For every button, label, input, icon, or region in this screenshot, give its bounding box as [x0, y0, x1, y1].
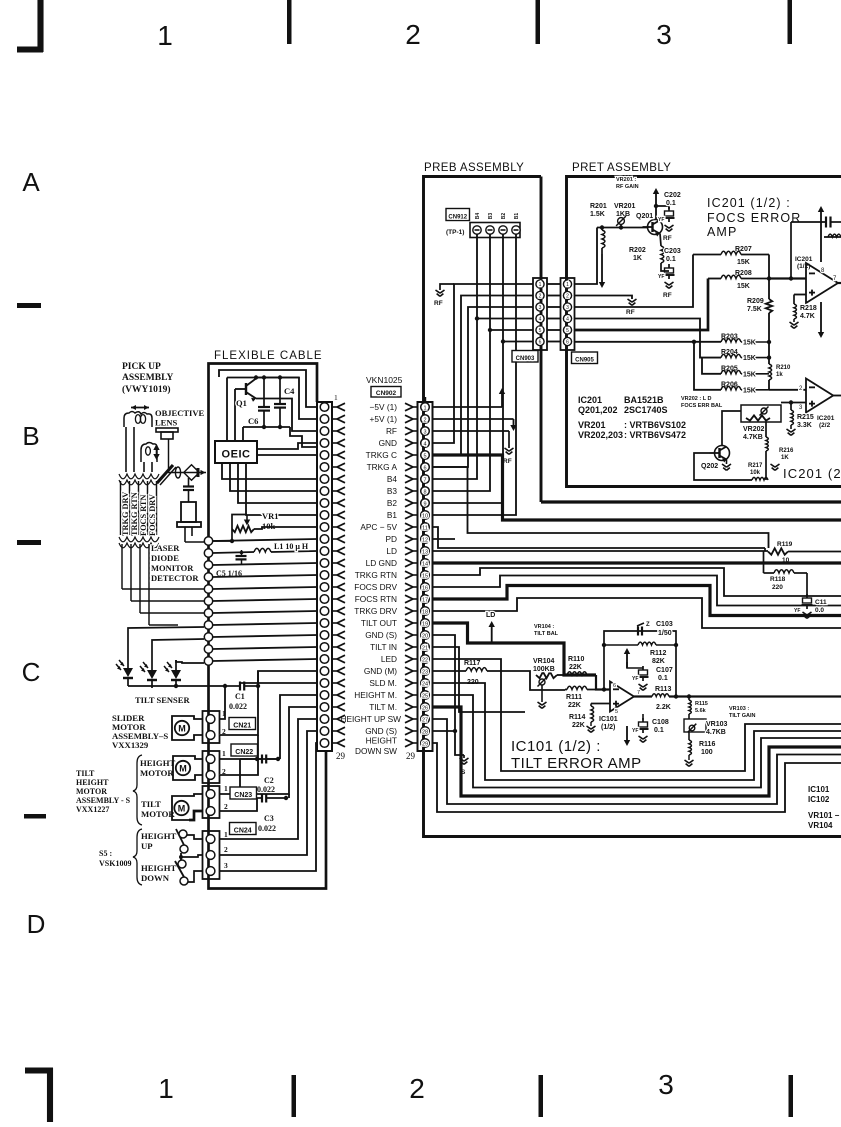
wire cap bottom row	[243, 426, 290, 428]
svg-text:RF: RF	[663, 292, 672, 299]
svg-text:: VRTB6VS472: : VRTB6VS472	[624, 430, 686, 440]
cable joint node 10	[204, 645, 212, 653]
svg-text:C108: C108	[652, 719, 669, 726]
wire +5V supply arrow	[433, 418, 514, 420]
svg-text:C203: C203	[664, 248, 681, 255]
cable arrow 2	[332, 418, 337, 420]
svg-text:MOTOR: MOTOR	[76, 787, 107, 796]
cable contact 21	[320, 643, 329, 652]
wire cable pin1 net	[219, 370, 317, 407]
board arrow 26	[413, 706, 418, 708]
svg-text:2: 2	[539, 294, 542, 300]
cable arrow 22	[332, 658, 337, 660]
svg-text:DIODE: DIODE	[151, 553, 179, 563]
board arrow 27	[413, 718, 418, 720]
svg-text:B4: B4	[387, 474, 398, 484]
svg-text:22: 22	[422, 658, 428, 664]
wire chain row 21	[213, 647, 318, 649]
svg-text:10k: 10k	[262, 521, 276, 531]
wire pin24 SLD M	[433, 683, 841, 780]
cable contact 12	[320, 535, 329, 544]
brace tilt assembly	[133, 755, 142, 825]
svg-text:(TP-1): (TP-1)	[446, 229, 464, 236]
svg-text:B1: B1	[514, 213, 520, 220]
cable contact 13	[320, 547, 329, 556]
flex wires from coils	[125, 427, 127, 472]
wire gnd bus to CN22-2	[220, 735, 258, 775]
svg-text:B: B	[22, 421, 39, 451]
svg-text:R202: R202	[629, 247, 646, 254]
svg-text:LENS: LENS	[155, 418, 177, 428]
svg-text:DETECTOR: DETECTOR	[151, 573, 199, 583]
svg-text:Q202: Q202	[701, 463, 718, 470]
svg-text:Q201: Q201	[636, 213, 653, 220]
resistor R210	[769, 364, 772, 380]
wire pin21 TILT IN	[433, 647, 525, 712]
svg-text:R114: R114	[569, 714, 585, 721]
CN902 contact 8	[421, 487, 430, 496]
svg-text:FOCS DRV: FOCS DRV	[354, 582, 397, 592]
wire monitor 3	[140, 612, 204, 614]
svg-text:L1 10 μ H: L1 10 μ H	[274, 542, 309, 551]
svg-text:29: 29	[406, 751, 416, 761]
svg-text:R201: R201	[590, 203, 607, 210]
CN902 contact 29	[421, 739, 430, 748]
svg-text:GND (M): GND (M)	[364, 666, 397, 676]
svg-text:CN905: CN905	[575, 357, 594, 363]
resistor R215	[790, 403, 792, 411]
svg-text:VR202: VR202	[743, 426, 765, 433]
tracking actuator arrow	[131, 407, 149, 409]
CN903 contact 2	[536, 291, 544, 299]
resistor R118	[763, 552, 765, 574]
svg-text:3: 3	[656, 19, 672, 50]
svg-text:R115: R115	[695, 701, 708, 707]
wire RF pin3	[433, 430, 509, 432]
cable joint node 3	[204, 561, 212, 569]
wire R205 feed	[700, 357, 702, 359]
CN905 contact 3	[563, 303, 571, 311]
svg-text:28: 28	[422, 730, 428, 736]
cable contact 9	[320, 499, 329, 508]
wire opamp1 plus	[794, 294, 806, 296]
variable resistor VR202	[741, 405, 781, 422]
motor M3 frame	[172, 796, 189, 820]
wire R202 emitter	[660, 234, 661, 247]
svg-text:5.6k: 5.6k	[695, 708, 707, 714]
svg-text:100: 100	[701, 749, 713, 756]
focus actuator arrow	[156, 449, 158, 452]
svg-text:5: 5	[566, 328, 569, 334]
board arrow 19	[413, 622, 418, 624]
cable arrow 21	[332, 646, 337, 648]
supply arrow down IC101	[626, 726, 628, 741]
svg-text:C1: C1	[235, 692, 245, 701]
wire pin17 TRKG DRV	[433, 586, 841, 616]
cable joint node 7	[204, 609, 212, 617]
svg-text:YF: YF	[658, 274, 664, 280]
svg-text:CN24: CN24	[234, 827, 252, 834]
wire M2 to CN22	[190, 756, 202, 759]
svg-text:TRKG DRV: TRKG DRV	[121, 492, 130, 536]
Q202 emitter ground	[726, 460, 728, 465]
connector CN22	[203, 751, 220, 783]
svg-text:VR201: VR201	[614, 203, 636, 210]
svg-text:ASSEMBLY: ASSEMBLY	[122, 373, 174, 383]
cable contact 15	[320, 571, 329, 580]
svg-text:7.5K: 7.5K	[747, 306, 762, 313]
svg-text:0.022: 0.022	[257, 785, 275, 794]
wire laser to pin10	[246, 463, 317, 515]
svg-text:(1/2): (1/2)	[601, 724, 615, 731]
svg-text:AMP: AMP	[707, 225, 737, 239]
connector CN23	[203, 786, 220, 818]
svg-text:6: 6	[566, 340, 569, 346]
wire chain row 14	[213, 563, 318, 565]
svg-text:R111: R111	[566, 694, 582, 701]
wire pin25 to CN22-1	[280, 695, 317, 759]
wire CN903-2 left	[433, 296, 533, 456]
svg-text:IC201 (1/2) :: IC201 (1/2) :	[707, 196, 791, 210]
svg-text:RF: RF	[386, 426, 397, 436]
wire PREB edge out	[541, 500, 841, 503]
svg-text:VXX1329: VXX1329	[112, 740, 149, 750]
cable contact 6	[320, 463, 329, 472]
wire opamp1 minus	[769, 277, 806, 279]
supply arrow down opamp1	[820, 302, 822, 333]
beam path vertical	[168, 439, 170, 472]
frame tick left B-C	[17, 540, 41, 545]
svg-text:15K: 15K	[743, 340, 756, 347]
CN902 contact 23	[421, 667, 430, 676]
svg-text:RF GAIN: RF GAIN	[616, 184, 639, 190]
svg-text:C: C	[22, 657, 41, 687]
wire C4 to pin	[290, 427, 317, 447]
svg-text:6: 6	[613, 683, 616, 689]
svg-text:2: 2	[405, 19, 421, 50]
switch S5 contacts	[179, 830, 187, 838]
cable arrow 25	[332, 694, 337, 696]
wire M1 to CN21	[189, 716, 202, 719]
svg-text:Z: Z	[646, 622, 650, 628]
svg-text:0.022: 0.022	[229, 702, 247, 711]
svg-text:10k: 10k	[750, 470, 761, 476]
cable arrow 14	[332, 562, 337, 564]
connector CN24	[203, 831, 220, 879]
svg-text:TRKG RTN: TRKG RTN	[130, 492, 139, 536]
svg-text:1: 1	[224, 784, 228, 793]
transistor Q202	[715, 446, 730, 461]
svg-text:3: 3	[224, 861, 228, 870]
CN902 contact 17	[421, 595, 430, 604]
CN902 contact 12	[421, 535, 430, 544]
CN902 contact 5	[421, 451, 430, 460]
svg-text:20: 20	[422, 634, 428, 640]
svg-text:9: 9	[423, 502, 426, 508]
svg-text:CN902: CN902	[376, 390, 397, 397]
CN902 contact 6	[421, 463, 430, 472]
mirror	[157, 465, 173, 483]
label CN903	[512, 351, 538, 363]
svg-text:14: 14	[422, 562, 428, 568]
svg-text:HEIGHT: HEIGHT	[366, 736, 397, 746]
motor M2	[176, 761, 190, 775]
board arrow 1	[413, 406, 418, 408]
wire chain row 17	[213, 599, 318, 601]
svg-text:DOWN SW: DOWN SW	[355, 746, 397, 756]
CN902 contact 27	[421, 715, 430, 724]
wire pin26 TILT M	[433, 707, 841, 796]
focus coil	[141, 443, 157, 463]
svg-text:IC101: IC101	[599, 716, 618, 723]
cable contact 19	[320, 619, 329, 628]
inductor L1	[213, 552, 255, 553]
svg-text:3.3K: 3.3K	[797, 422, 812, 429]
svg-text:VR201: VR201	[578, 420, 606, 430]
capacitor C2	[240, 758, 262, 760]
svg-text:HEIGHT: HEIGHT	[141, 863, 176, 873]
connector CN905	[561, 278, 575, 350]
svg-text:C202: C202	[664, 192, 681, 199]
wire pin29 to CN24-3	[220, 743, 317, 871]
svg-text:YF: YF	[658, 217, 664, 223]
wire chain row1	[213, 539, 318, 541]
board arrow 18	[413, 610, 418, 612]
wire tilt D2	[152, 639, 204, 660]
svg-text:27: 27	[422, 718, 428, 724]
svg-text:220: 220	[772, 584, 783, 591]
cable arrow 5	[332, 454, 337, 456]
board arrow 5	[413, 454, 418, 456]
frame tick left C-D	[24, 814, 46, 819]
wire pin25 HEIGHT M	[433, 695, 841, 788]
tilt sensor diode D2	[147, 670, 157, 679]
svg-text:1KB: 1KB	[616, 211, 630, 218]
frame tick left A-B	[17, 303, 41, 308]
label CN23	[230, 787, 257, 799]
svg-text:R216: R216	[779, 448, 794, 454]
CN21 contacts	[206, 715, 215, 724]
svg-text:C4: C4	[284, 386, 295, 396]
svg-text:29: 29	[422, 742, 428, 748]
wire CN905-3 up	[574, 255, 693, 308]
CN902 contact 13	[421, 547, 430, 556]
svg-text:HEIGHT: HEIGHT	[140, 758, 175, 768]
wire -5V supply arrow	[433, 406, 502, 408]
laser diode package	[181, 502, 196, 522]
svg-text:ASSEMBLY - S: ASSEMBLY - S	[76, 796, 131, 805]
test point 4	[512, 226, 520, 234]
svg-text:15K: 15K	[737, 283, 750, 290]
svg-text:1: 1	[539, 282, 542, 288]
wire OEIC down3	[238, 463, 317, 503]
resistor R117	[433, 670, 466, 672]
label CN24	[230, 823, 257, 835]
CN905 contact 5	[563, 326, 571, 334]
svg-text:HEIGHT: HEIGHT	[76, 778, 109, 787]
svg-text:OBJECTIVE: OBJECTIVE	[155, 408, 204, 418]
svg-text:RF: RF	[503, 458, 512, 465]
cable contact 10	[320, 511, 329, 520]
board arrow 24	[413, 682, 418, 684]
CN902 contact 21	[421, 643, 430, 652]
wire pin28 to CN24-2	[220, 731, 317, 855]
cable arrow 7	[332, 478, 337, 480]
svg-text:LD: LD	[386, 546, 397, 556]
svg-text:18: 18	[422, 610, 428, 616]
svg-text:1k: 1k	[776, 372, 783, 378]
capacitor C4	[279, 378, 281, 405]
svg-text:R218: R218	[800, 305, 817, 312]
svg-text:0.1: 0.1	[666, 256, 676, 263]
board arrow 17	[413, 598, 418, 600]
svg-text:VR103 :: VR103 :	[729, 706, 749, 712]
svg-text:Q201,202: Q201,202	[578, 405, 618, 415]
svg-text:5: 5	[615, 709, 618, 715]
svg-text:FOCS ERROR: FOCS ERROR	[707, 211, 801, 225]
board arrow 9	[413, 502, 418, 504]
svg-text:VR202,203: VR202,203	[578, 430, 623, 440]
svg-text:RF: RF	[663, 235, 672, 242]
svg-text:TILT GAIN: TILT GAIN	[729, 713, 756, 719]
cable contact 4	[320, 439, 329, 448]
svg-text:15K: 15K	[737, 259, 750, 266]
cable contact 29	[320, 739, 329, 748]
CN902 contact 10	[421, 511, 430, 520]
op-amp U201b	[806, 379, 833, 413]
cable contact 27	[320, 715, 329, 724]
svg-text:1: 1	[158, 1073, 174, 1104]
ground S	[463, 755, 465, 758]
wire CN903-3 left	[433, 307, 533, 467]
test point strip	[470, 223, 520, 238]
svg-text:SLD M.: SLD M.	[369, 678, 397, 688]
svg-text:B3: B3	[488, 213, 494, 220]
wire VR1	[254, 527, 317, 529]
CN902 contact 16	[421, 583, 430, 592]
wire OEIC out1	[257, 443, 317, 449]
tilt sensor diode D1	[123, 668, 133, 677]
CN903 contact 6	[536, 337, 544, 345]
cable joint node 6	[204, 597, 212, 605]
CN905 contact 1	[563, 280, 571, 288]
svg-text:D: D	[27, 909, 46, 939]
svg-text:15K: 15K	[743, 355, 756, 362]
CN902 contact 9	[421, 499, 430, 508]
svg-text:MONITOR: MONITOR	[151, 563, 194, 573]
svg-text:HEIGHT: HEIGHT	[141, 831, 176, 841]
svg-text:−5V (1): −5V (1)	[370, 402, 398, 412]
svg-text:CN22: CN22	[235, 749, 253, 756]
wire monitor 2	[131, 600, 204, 602]
svg-text:0.1: 0.1	[654, 727, 664, 734]
cable arrow 16	[332, 586, 337, 588]
svg-text:24: 24	[422, 682, 428, 688]
svg-text:VR104: VR104	[533, 658, 555, 665]
cable arrow 1	[332, 406, 337, 408]
wire pin15 FOCS DRV	[433, 568, 841, 596]
wire pin28 join	[433, 730, 455, 732]
svg-text:PD: PD	[385, 534, 397, 544]
resistor R114	[591, 706, 594, 722]
wire pin12 PD stub	[433, 538, 455, 540]
cable joint node 9	[204, 633, 212, 641]
svg-text:22K: 22K	[569, 664, 582, 671]
board arrow 10	[413, 514, 418, 516]
wire Q1 emitter to pin3	[256, 399, 317, 432]
cable joint node 1	[204, 537, 212, 545]
svg-text:GND (S): GND (S)	[365, 726, 397, 736]
cable arrow 8	[332, 490, 337, 492]
motor M3	[174, 801, 188, 815]
resistor R110	[567, 672, 587, 675]
cable contact 26	[320, 703, 329, 712]
CN902 contact 26	[421, 703, 430, 712]
svg-text:LD GND: LD GND	[366, 558, 397, 568]
CN902 contact 20	[421, 631, 430, 640]
svg-text:Q1: Q1	[236, 398, 247, 408]
svg-text:4: 4	[539, 317, 542, 323]
wire chain row 20	[213, 635, 318, 637]
wire bus to minus2	[768, 380, 770, 390]
wire pin27 to CN24-1	[220, 719, 317, 839]
cable arrow 26	[332, 706, 337, 708]
wire chain row 18	[213, 611, 318, 613]
capacitor C107	[627, 662, 643, 668]
wire monitor 4	[149, 624, 178, 626]
svg-text:B2: B2	[387, 498, 398, 508]
wire chain row 16	[213, 587, 318, 589]
wire M3 to CN23	[189, 794, 202, 796]
label CN22	[231, 744, 258, 756]
svg-text:FLEXIBLE CABLE: FLEXIBLE CABLE	[214, 350, 323, 362]
svg-text:R215: R215	[797, 414, 814, 421]
svg-text:12: 12	[422, 538, 428, 544]
wire pin16 FOCS RTN	[433, 576, 841, 606]
beam arrow	[201, 470, 206, 475]
resistor R204	[741, 357, 769, 359]
svg-text:2: 2	[224, 802, 228, 811]
svg-text:TRKG C: TRKG C	[366, 450, 397, 460]
wire pin18	[433, 598, 841, 628]
svg-text:HEIGHT M.: HEIGHT M.	[354, 690, 397, 700]
svg-text:3: 3	[539, 305, 542, 311]
svg-text:FOCS DRV: FOCS DRV	[148, 494, 157, 536]
capacitor C5	[236, 555, 247, 557]
svg-text:TRKG A: TRKG A	[367, 462, 398, 472]
wire VR202 down	[765, 422, 767, 437]
variable resistor VR1	[232, 526, 254, 532]
cable contact 18	[320, 607, 329, 616]
feedback capacitor	[825, 217, 827, 228]
svg-text:17: 17	[422, 598, 428, 604]
wire opamp101 output	[634, 695, 652, 697]
svg-text:16: 16	[422, 586, 428, 592]
svg-text:23: 23	[422, 670, 428, 676]
svg-text:TILT: TILT	[141, 799, 161, 809]
wire TP B4	[433, 234, 477, 479]
board arrow 23	[413, 670, 418, 672]
PREB board outline	[424, 177, 841, 837]
CN902 contact 14	[421, 559, 430, 568]
wire opamp2 plus	[781, 402, 806, 404]
wire opamp2 minus	[769, 389, 806, 391]
resistor R218	[793, 295, 795, 305]
CN902 contact 22	[421, 655, 430, 664]
wire tilt D3	[176, 660, 204, 663]
frame corner mark top-left	[37, 0, 43, 52]
svg-text:TILT: TILT	[76, 769, 95, 778]
